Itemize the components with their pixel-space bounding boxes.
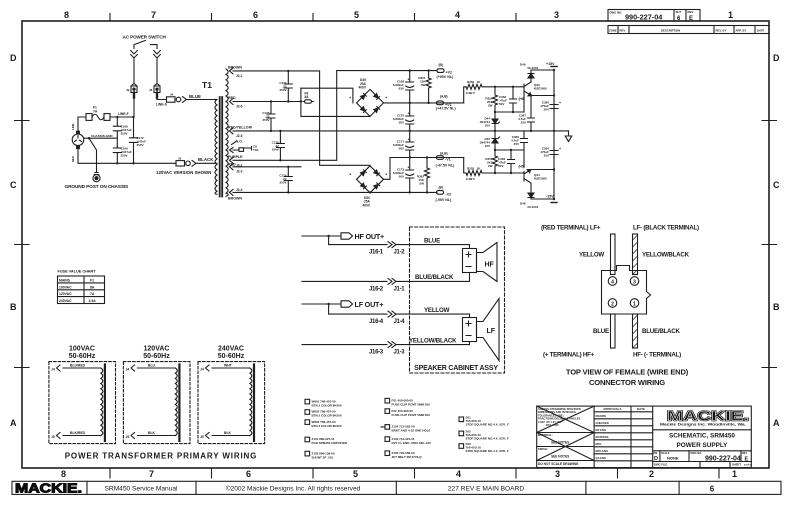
svg-text:1: 1 [728, 10, 733, 20]
capacitor C168F [393, 78, 414, 91]
svg-text:D: D [773, 53, 780, 63]
svg-text:8: 8 [64, 10, 69, 20]
svg-text:BLK/RED: BLK/RED [70, 431, 86, 435]
svg-text:16V: 16V [485, 144, 490, 148]
footer text cells [105, 485, 715, 494]
svg-text:+: + [408, 138, 410, 142]
tap J2-1 BROWN [228, 66, 243, 79]
wire color labels lower [593, 328, 680, 335]
wire inlet to fuse [78, 117, 86, 131]
svg-text:J9: J9 [126, 88, 130, 92]
svg-text:250V: 250V [121, 132, 128, 136]
LF OUT+ terminal arrow [302, 300, 383, 309]
svg-text:(+95V NL): (+95V NL) [437, 75, 454, 79]
svg-text:250V: 250V [272, 148, 279, 152]
svg-text:SCHEMATIC, SRM450: SCHEMATIC, SRM450 [669, 432, 735, 439]
svg-text:LF OUT+: LF OUT+ [355, 300, 384, 309]
speaker cabinet assy box [410, 227, 505, 373]
ground symbol [565, 131, 572, 142]
svg-text:25V: 25V [544, 154, 549, 158]
callout Z104 [381, 425, 431, 433]
svg-text:120VAC: 120VAC [59, 292, 72, 296]
svg-text:R352: R352 [467, 80, 475, 84]
svg-text:7: 7 [151, 10, 156, 20]
svg-text:BLUE: BLUE [424, 238, 440, 245]
HF speaker [463, 243, 498, 282]
svg-text:B: B [773, 302, 780, 312]
svg-text:A: A [773, 418, 780, 428]
svg-text:1: 1 [633, 301, 636, 307]
svg-text:REV. BY: REV. BY [716, 29, 727, 33]
callout S03 [459, 442, 509, 453]
wire 0V rail [240, 130, 569, 132]
LINE-S label [156, 103, 168, 107]
svg-text:BLU: BLU [148, 364, 156, 368]
callout S01 [459, 415, 509, 426]
thermal switch TH1 [230, 140, 259, 153]
diode D48 [520, 192, 539, 210]
svg-text:240VAC: 240VAC [218, 346, 244, 353]
svg-text:J5: J5 [126, 435, 130, 439]
svg-text:2W: 2W [488, 104, 493, 108]
svg-text:DL4004: DL4004 [528, 205, 539, 209]
connector J16-3 J1-3 [369, 342, 405, 356]
svg-text:120VAC: 120VAC [144, 346, 170, 353]
svg-text:CHECKED: CHECKED [596, 421, 609, 425]
svg-text:-V2: -V2 [446, 192, 452, 196]
svg-text:REV: REV [742, 452, 747, 455]
svg-text:J1-1: J1-1 [394, 286, 406, 292]
callout W603 [305, 420, 342, 428]
callout Z101 [305, 437, 348, 445]
svg-text:400V: 400V [363, 203, 371, 207]
wire fuse to LINE-F [110, 112, 135, 118]
svg-text:J16-3: J16-3 [369, 350, 384, 356]
capacitor C176 [272, 131, 285, 160]
svg-text:J3: J3 [178, 156, 182, 160]
capacitor C365 [540, 101, 561, 113]
connector J3 [176, 156, 196, 166]
capacitor C175 [262, 102, 275, 131]
svg-text:BTN 2 COLOR 8K500: BTN 2 COLOR 8K500 [312, 403, 342, 407]
pin 3 [630, 277, 639, 286]
svg-text:SHT: SHT [676, 10, 682, 14]
callout F02 [385, 409, 431, 417]
svg-text:6: 6 [710, 485, 715, 494]
svg-text:(-47.5V NL): (-47.5V NL) [436, 164, 456, 168]
tap J2-3 RED [228, 163, 243, 174]
svg-text:PM: PM [654, 452, 658, 455]
wire base row upper [494, 94, 524, 114]
connector J16-1 J1-2 [369, 242, 405, 256]
capacitor C169 [113, 146, 132, 163]
zone letters right [773, 53, 780, 428]
svg-text:FUSE CLIP PCMT 5MM DIA: FUSE CLIP PCMT 5MM DIA [392, 402, 431, 406]
callout F01 [385, 398, 431, 406]
tap J2-6 RED [228, 96, 243, 109]
svg-text:1/4W F: 1/4W F [466, 177, 476, 181]
svg-text:+: + [408, 112, 410, 116]
wire switch left pole [133, 58, 135, 84]
svg-text:BLACK: BLACK [198, 157, 214, 162]
wire LF- [302, 344, 387, 346]
wire switch right pole [156, 58, 158, 84]
svg-text:25V: 25V [521, 121, 526, 125]
svg-text:YELLOW: YELLOW [424, 307, 450, 314]
capacitor C366 [511, 131, 527, 150]
svg-text:CONNECTOR WIRING: CONNECTOR WIRING [589, 378, 665, 387]
connector J16-4 J1-4 [369, 311, 405, 325]
svg-text:POWER TRANSFORMER PRIMARY WIRI: POWER TRANSFORMER PRIMARY WIRING [65, 452, 258, 461]
svg-text:STDF SQUARE NO.4 X .027L F: STDF SQUARE NO.4 X .027L F [466, 422, 509, 426]
svg-text:STDF SQUARE NO.4 X .027L F: STDF SQUARE NO.4 X .027L F [466, 449, 509, 453]
svg-text:E: E [689, 16, 693, 22]
svg-text:250V: 250V [279, 181, 286, 185]
wire chassis-gnd [84, 134, 118, 140]
svg-text:J1-4: J1-4 [394, 319, 406, 325]
title block approvals column [594, 407, 653, 461]
svg-text:PURPLE: PURPLE [228, 155, 243, 159]
120VAC heading [143, 346, 170, 361]
240VAC heading [218, 346, 245, 361]
title block number row [653, 451, 752, 468]
svg-text:APPROVALS: APPROVALS [603, 407, 621, 411]
svg-text:BTN 2 COLOR 8K500: BTN 2 COLOR 8K500 [312, 414, 342, 418]
svg-text:J1-2: J1-2 [394, 250, 406, 256]
svg-text:4: 4 [455, 10, 460, 20]
zener D45 [479, 131, 499, 150]
svg-text:(RED TERMINAL) LF+: (RED TERMINAL) LF+ [541, 225, 601, 232]
svg-text:(+47.5V NL): (+47.5V NL) [436, 107, 456, 111]
resistor R355 [485, 150, 497, 173]
svg-text:(-95V NL): (-95V NL) [436, 198, 453, 202]
capacitor C364 [540, 147, 561, 159]
svg-text:50-60Hz: 50-60Hz [218, 353, 245, 360]
footer bar [12, 481, 781, 494]
tap J2-4 BROWN [228, 188, 243, 201]
svg-text:25V: 25V [544, 108, 549, 112]
svg-text:J16-4: J16-4 [369, 319, 384, 325]
svg-text:16V: 16V [485, 124, 490, 128]
node H5 upper [519, 97, 525, 101]
capacitor C352 [499, 86, 517, 112]
pin 1 [630, 299, 639, 308]
svg-text:J8: J8 [149, 88, 153, 92]
svg-text:(H5): (H5) [519, 165, 525, 169]
terminal -V2 [436, 185, 453, 201]
svg-text:REV: REV [688, 10, 694, 14]
svg-text:RED: RED [228, 163, 236, 167]
svg-text:+: + [559, 147, 561, 151]
svg-text:FINISH:: FINISH: [538, 447, 548, 451]
capacitor C367 [518, 94, 534, 131]
resistor R356 [485, 86, 497, 112]
svg-text:J5: J5 [200, 435, 204, 439]
svg-text:J2-4: J2-4 [236, 188, 243, 192]
svg-text:J4: J4 [170, 93, 174, 97]
svg-text:TOP VIEW OF FEMALE (WIRE END): TOP VIEW OF FEMALE (WIRE END) [566, 368, 689, 377]
svg-text:BLUE/BLACK: BLUE/BLACK [642, 328, 680, 335]
zone numbers top [64, 10, 733, 20]
svg-text:DWG NO.: DWG NO. [691, 452, 703, 455]
title block MACKIE logo [660, 408, 749, 427]
svg-text:50V: 50V [399, 147, 404, 151]
svg-text:+15V: +15V [546, 62, 555, 66]
svg-text:1/4W F: 1/4W F [466, 91, 476, 95]
svg-text:990-227-04: 990-227-04 [625, 12, 663, 21]
wire BLUE/BLACK bar [633, 314, 638, 348]
top right drawing number box [608, 10, 700, 23]
wire +V1 rail [384, 102, 464, 104]
transistor Q30 [524, 82, 547, 96]
svg-text:990-227-04: 990-227-04 [705, 455, 741, 462]
svg-text:SHEET: SHEET [732, 463, 741, 467]
wire to ground post [89, 138, 97, 172]
240VAC box [198, 362, 265, 444]
svg-text:(B): (B) [439, 185, 443, 189]
svg-text:8A: 8A [305, 95, 310, 99]
svg-text:400V: 400V [359, 86, 367, 90]
svg-text:(+ TERMINAL) HF+: (+ TERMINAL) HF+ [543, 352, 595, 359]
svg-text:SCALE: SCALE [661, 452, 670, 455]
svg-text:J4: J4 [51, 368, 55, 372]
capacitor C172 [130, 117, 147, 163]
svg-text:2W: 2W [488, 164, 493, 168]
svg-text:E: E [745, 456, 749, 462]
svg-text:J2-1: J2-1 [236, 74, 243, 78]
callout Z102 [305, 451, 335, 459]
footer MACKIE logo [15, 481, 82, 495]
svg-text:J16-2: J16-2 [369, 286, 384, 292]
svg-text:BLK: BLK [224, 431, 232, 435]
svg-text:3.5A: 3.5A [89, 299, 97, 303]
wire BLUE bar [611, 314, 616, 348]
svg-text:A: A [10, 418, 17, 428]
svg-text:25V: 25V [514, 142, 519, 146]
svg-text:6: 6 [246, 469, 251, 479]
100VAC heading [69, 346, 96, 361]
svg-text:250V: 250V [137, 143, 144, 147]
svg-text:C: C [773, 180, 780, 190]
ground post on chassis [65, 173, 130, 191]
svg-text:250V: 250V [262, 118, 269, 122]
svg-text:BROWN: BROWN [228, 66, 242, 70]
svg-text:50-60Hz: 50-60Hz [69, 353, 96, 360]
svg-text:2: 2 [649, 469, 654, 479]
svg-text:F1: F1 [90, 278, 94, 282]
connector view caption [566, 368, 689, 387]
svg-text:(B): (B) [439, 63, 443, 67]
svg-text:J2-5: J2-5 [236, 134, 243, 138]
svg-text:J2-6: J2-6 [236, 105, 243, 109]
svg-text:QA ENG: QA ENG [596, 456, 607, 460]
svg-text:BLUE/BLACK: BLUE/BLACK [415, 274, 454, 281]
wire -V1 tap to regulator [464, 158, 513, 175]
svg-text:SRM450 Service Manual: SRM450 Service Manual [105, 486, 178, 493]
svg-text:1: 1 [732, 469, 737, 479]
svg-text:.XXX ±.005: .XXX ±.005 [545, 423, 559, 427]
svg-text:FUSE VALUE CHART: FUSE VALUE CHART [58, 270, 97, 274]
svg-text:T1: T1 [202, 80, 212, 90]
svg-text:50V: 50V [399, 121, 404, 125]
wire inlet neutral to J3 [78, 149, 176, 165]
svg-text:J2-3: J2-3 [236, 170, 243, 174]
svg-text:N.O.: N.O. [236, 140, 243, 144]
capacitor C168 [113, 117, 132, 147]
capacitor C173 [393, 166, 414, 179]
diode D49R [520, 63, 539, 83]
svg-text:7: 7 [149, 469, 154, 479]
100VAC box [49, 362, 116, 444]
svg-text:D48: D48 [520, 202, 526, 206]
capacitor C363 [498, 150, 515, 173]
svg-text:BRKT ANG 4-32 ONE HOLE: BRKT ANG 4-32 ONE HOLE [392, 429, 431, 433]
svg-text:NEU: NEU [71, 156, 75, 162]
svg-text:BROWN: BROWN [228, 197, 242, 201]
svg-text:7A: 7A [93, 109, 98, 113]
callout W601 [305, 399, 342, 407]
connector J8 [149, 84, 160, 98]
pin 2 [608, 299, 617, 308]
svg-text:DL4004: DL4004 [528, 66, 539, 70]
svg-text:CHASSIS-GND: CHASSIS-GND [91, 134, 113, 138]
svg-text:4: 4 [456, 469, 461, 479]
svg-text:AC POWER SWITCH: AC POWER SWITCH [123, 35, 167, 40]
svg-text:100VAC: 100VAC [59, 285, 72, 289]
svg-text:LINE-F: LINE-F [118, 112, 129, 116]
callout W602 [305, 410, 342, 418]
svg-text:POWER SUPPLY: POWER SUPPLY [677, 442, 729, 449]
svg-text:BLU/RED: BLU/RED [70, 364, 86, 368]
svg-text:(A,B): (A,B) [440, 94, 448, 98]
svg-text:JET MELT 3M 3779-Q: JET MELT 3M 3779-Q [392, 455, 423, 459]
svg-text:MAINS: MAINS [59, 278, 71, 282]
resistor R361 [418, 71, 431, 103]
revision history header strip [608, 26, 769, 34]
svg-text:BTN 2 COLOR 8K500: BTN 2 COLOR 8K500 [312, 424, 342, 428]
svg-text:Mackie Designs Inc. Woodinvi: Mackie Designs Inc. Woodinville, Wa. [660, 422, 746, 427]
svg-text:3: 3 [633, 279, 636, 285]
svg-text:a of a: a of a [744, 463, 752, 467]
svg-text:50V: 50V [498, 164, 503, 168]
wire YELLOW/BLACK [396, 337, 470, 344]
transformer T1 [202, 69, 228, 197]
switch pole chevrons [131, 51, 161, 59]
wire BLUE to T1 [187, 94, 218, 100]
svg-text:BLK: BLK [148, 431, 156, 435]
fuse F1 [86, 106, 110, 121]
svg-text:6: 6 [253, 10, 258, 20]
svg-text:250V: 250V [121, 153, 128, 157]
HF OUT+ terminal arrow [302, 232, 384, 241]
svg-text:MFG: MFG [596, 442, 602, 446]
title block outline [537, 406, 752, 468]
wire -15V node [531, 168, 557, 202]
connector view header labels [541, 225, 699, 232]
wire -V1 rail [384, 156, 464, 179]
wire +15V node [531, 62, 557, 199]
capacitor C177 [279, 71, 292, 102]
resistor R362 [417, 158, 430, 193]
svg-text:LINE-S: LINE-S [156, 103, 168, 107]
svg-text:SEE NOTES: SEE NOTES [551, 455, 569, 459]
connector J4 [167, 93, 187, 103]
svg-text:GROUND POST ON CHASSIS: GROUND POST ON CHASSIS [65, 184, 130, 190]
wire BROWN lower bus [240, 191, 437, 193]
svg-text:8: 8 [61, 469, 66, 479]
svg-text:YELLOW: YELLOW [579, 252, 604, 259]
svg-text:YELLOW/BLACK: YELLOW/BLACK [642, 252, 690, 259]
callout Z103 [385, 437, 431, 445]
zone numbers bottom [61, 469, 737, 479]
svg-text:MJE3055: MJE3055 [534, 87, 547, 91]
connector J9 [126, 84, 137, 98]
wire HF- [302, 280, 387, 282]
svg-text:+V2: +V2 [446, 70, 453, 74]
svg-text:250V: 250V [279, 88, 286, 92]
svg-text:2: 2 [611, 301, 614, 307]
svg-text:63V: 63V [399, 87, 404, 91]
bridge rectifier D50 [349, 166, 388, 208]
svg-text:+: + [559, 101, 561, 105]
svg-text:D: D [654, 456, 658, 462]
svg-text:4: 4 [611, 279, 614, 285]
wire +V1 tap to regulator [464, 87, 466, 103]
svg-text:RVT CL END .059X.062-.125: RVT CL END .059X.062-.125 [392, 441, 432, 445]
wire HF+ to J16-1 [327, 235, 387, 245]
wire RED upper bus [240, 100, 302, 102]
svg-text:50V: 50V [399, 175, 404, 179]
wire BROWN upper bus [240, 70, 370, 166]
svg-text:MJE2955: MJE2955 [534, 177, 547, 181]
120VAC note [156, 170, 211, 175]
zener D44 [479, 112, 499, 131]
connector body [602, 266, 651, 315]
title block notes column [537, 406, 594, 466]
svg-text:BLUE: BLUE [189, 94, 201, 99]
svg-text:YELLOW/BLACK: YELLOW/BLACK [409, 337, 457, 344]
wire BLUE/BLACK [396, 273, 470, 282]
fuse value chart [58, 270, 105, 304]
svg-text:RED: RED [228, 96, 236, 100]
svg-text:MF ENG: MF ENG [596, 428, 606, 432]
svg-text:SPEAKER CABINET ASSY: SPEAKER CABINET ASSY [414, 365, 498, 372]
fuse F8 [301, 88, 370, 116]
svg-text:+: + [408, 166, 410, 170]
svg-text:7A: 7A [90, 292, 95, 296]
svg-text:APP. BY: APP. BY [736, 29, 747, 33]
svg-text:MFG ENG: MFG ENG [596, 449, 609, 453]
svg-text:DWG FILE.: DWG FILE. [654, 463, 668, 467]
AC POWER SWITCH label [123, 35, 167, 40]
pin 4 [608, 277, 617, 286]
svg-text:©2002 Mackie Designs Inc. All: ©2002 Mackie Designs Inc. All rights res… [226, 485, 361, 493]
svg-text:MATERIAL:: MATERIAL: [538, 433, 553, 437]
svg-text:50-60Hz: 50-60Hz [143, 353, 170, 360]
svg-text:WHT: WHT [224, 364, 233, 368]
svg-text:TH1: TH1 [253, 148, 259, 152]
svg-text:(A,B): (A,B) [440, 151, 448, 155]
svg-text:DATE: DATE [757, 29, 765, 33]
svg-text:B: B [10, 302, 17, 312]
svg-text:5: 5 [353, 469, 358, 479]
resistor R352 [466, 80, 525, 95]
primary wiring caption [65, 452, 258, 461]
tap J2-5 RED/YELLOW [228, 126, 253, 139]
callout S02 [459, 429, 509, 440]
svg-text:3: 3 [555, 469, 560, 479]
svg-text:STDF SQUARE NO.4 X .027L F: STDF SQUARE NO.4 X .027L F [466, 436, 509, 440]
